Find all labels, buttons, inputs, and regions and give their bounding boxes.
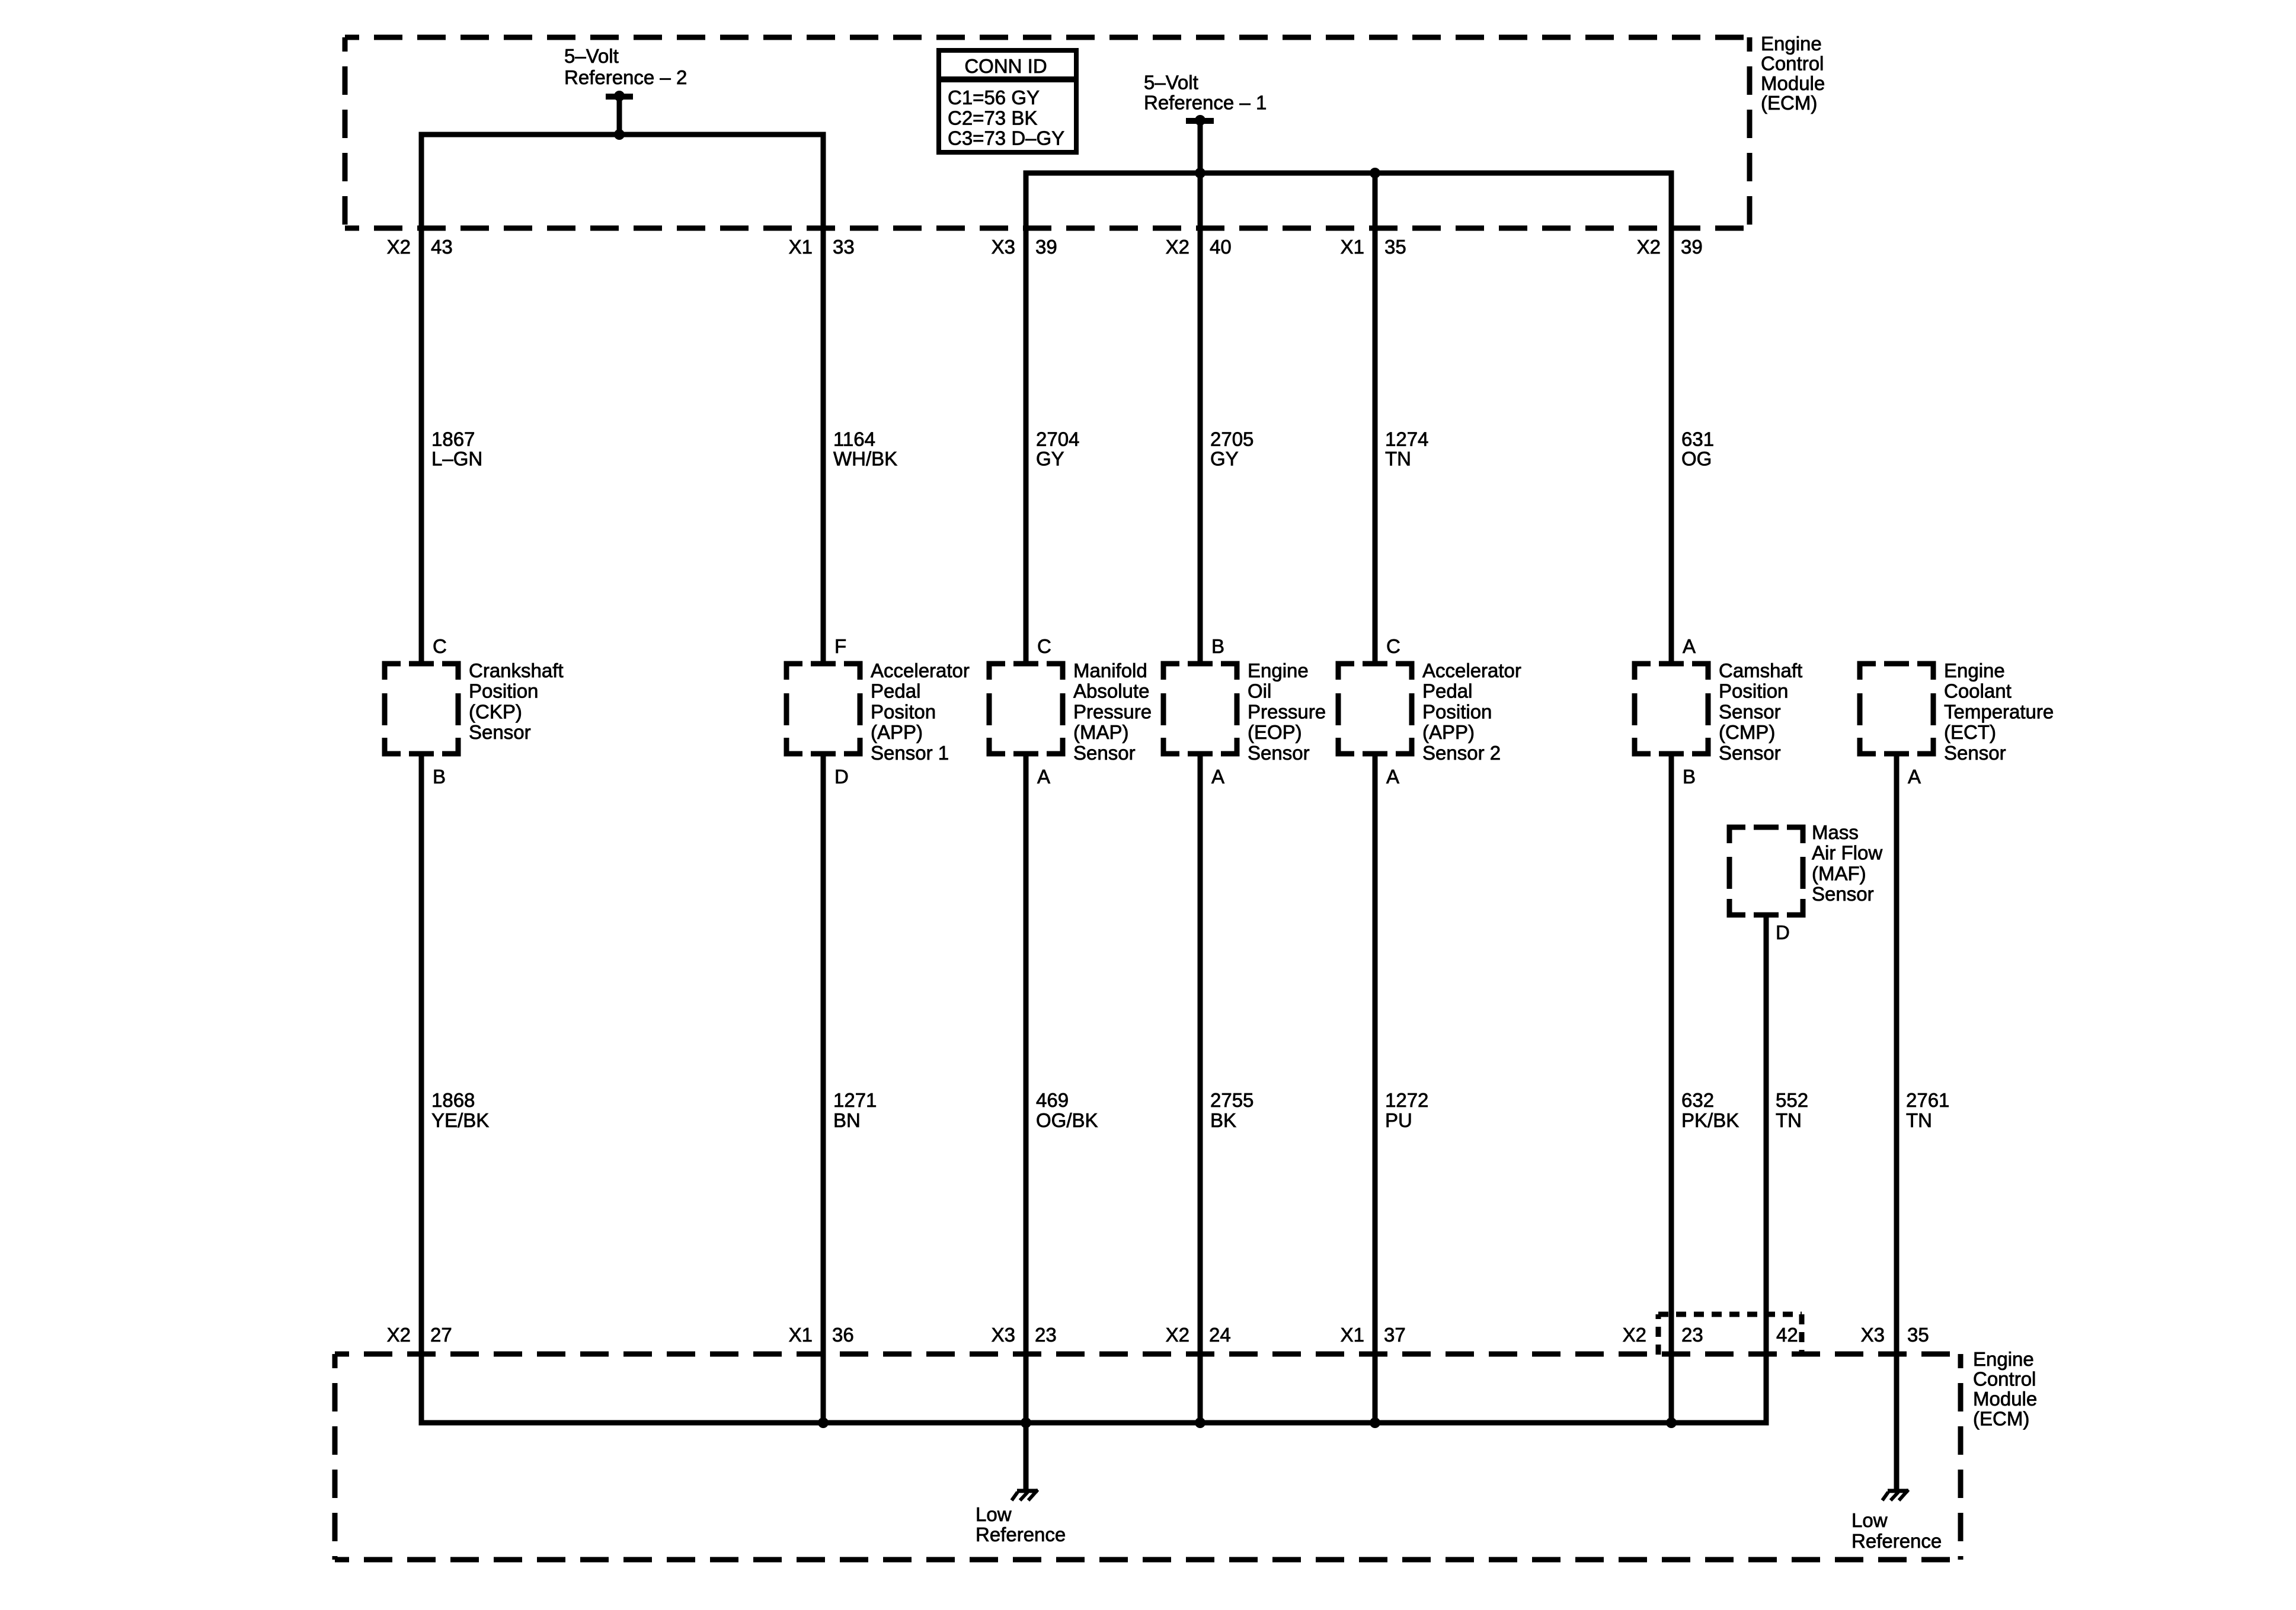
- svg-text:BK: BK: [1210, 1109, 1236, 1131]
- svg-text:Sensor: Sensor: [1073, 742, 1136, 764]
- svg-text:Air Flow: Air Flow: [1812, 842, 1882, 864]
- svg-text:Control: Control: [1761, 52, 1824, 74]
- label: circuit 1867 L-GN: [431, 428, 482, 470]
- svg-text:D: D: [1776, 921, 1790, 943]
- svg-text:Low: Low: [976, 1503, 1012, 1525]
- svg-text:39: 39: [1035, 236, 1057, 258]
- svg-text:(CMP): (CMP): [1719, 721, 1775, 743]
- svg-text:OG/BK: OG/BK: [1036, 1109, 1098, 1131]
- svg-text:Low: Low: [1851, 1509, 1888, 1531]
- label: circuit 631 OG: [1681, 428, 1714, 470]
- wire 1868 YE/BK (CKP low): [419, 754, 424, 1426]
- svg-text:Module: Module: [1761, 72, 1825, 94]
- wire 552 TN (MAF low): [1764, 915, 1769, 1426]
- svg-text:1867: 1867: [431, 428, 475, 450]
- svg-text:2705: 2705: [1210, 428, 1253, 450]
- svg-text:Oil: Oil: [1248, 680, 1271, 702]
- svg-text:5–Volt: 5–Volt: [1144, 72, 1198, 94]
- svg-text:X3: X3: [992, 236, 1015, 258]
- pin X1 35 (top ECM row): [1341, 236, 1406, 258]
- svg-text:Sensor: Sensor: [1719, 742, 1781, 764]
- svg-text:X2: X2: [1623, 1324, 1646, 1346]
- svg-text:X3: X3: [1861, 1324, 1885, 1346]
- pin X2 23 (bottom ECM row, CMP): [1623, 1324, 1703, 1346]
- svg-text:Engine: Engine: [1761, 33, 1822, 55]
- wire: 5V ref 1 bus: [1026, 171, 1671, 176]
- svg-text:(ECM): (ECM): [1761, 92, 1817, 114]
- svg-text:469: 469: [1036, 1089, 1069, 1111]
- svg-text:1272: 1272: [1385, 1089, 1428, 1111]
- svg-text:631: 631: [1681, 428, 1714, 450]
- svg-text:1274: 1274: [1385, 428, 1428, 450]
- junction: APP2 tap on 5V ref 1 bus: [1370, 168, 1380, 178]
- label: Engine Control Module (ECM) bottom: [1973, 1348, 2037, 1430]
- label: circuit 1164 WH/BK: [833, 428, 897, 470]
- engine coolant temperature (ECT) sensor: [1857, 660, 2054, 788]
- manifold absolute pressure (MAP) sensor: [987, 635, 1152, 788]
- svg-text:43: 43: [431, 236, 453, 258]
- svg-text:X1: X1: [789, 1324, 813, 1346]
- svg-text:GY: GY: [1210, 448, 1239, 470]
- svg-text:CONN ID: CONN ID: [964, 55, 1047, 77]
- CONN ID table: [939, 50, 1076, 152]
- svg-text:Reference – 1: Reference – 1: [1144, 92, 1267, 114]
- svg-text:Reference – 2: Reference – 2: [564, 66, 687, 88]
- svg-text:OG: OG: [1681, 448, 1712, 470]
- wire 469 OG/BK (MAP low): [1024, 754, 1029, 1489]
- crankshaft position (CKP) sensor: [382, 635, 564, 788]
- svg-text:(EOP): (EOP): [1248, 721, 1302, 743]
- svg-text:1271: 1271: [833, 1089, 877, 1111]
- svg-text:Reference: Reference: [1851, 1530, 1942, 1552]
- label: circuit 1274 TN: [1385, 428, 1428, 470]
- svg-text:Engine: Engine: [1248, 660, 1309, 681]
- wire 1164 WH/BK (APP1 5V): [821, 132, 826, 664]
- svg-text:(ECM): (ECM): [1973, 1408, 2029, 1430]
- svg-text:Pressure: Pressure: [1073, 700, 1152, 722]
- svg-text:X1: X1: [1341, 236, 1364, 258]
- svg-text:632: 632: [1681, 1089, 1714, 1111]
- junction: APP1 low: [818, 1417, 829, 1428]
- accelerator pedal position (APP) sensor 1: [784, 635, 970, 788]
- svg-text:B: B: [433, 766, 446, 788]
- svg-text:TN: TN: [1385, 448, 1411, 470]
- svg-text:2704: 2704: [1036, 428, 1079, 450]
- svg-text:(ECT): (ECT): [1944, 721, 1996, 743]
- svg-text:35: 35: [1384, 236, 1406, 258]
- wire 1271 BN (APP1 low): [821, 754, 826, 1423]
- svg-text:Sensor: Sensor: [1812, 883, 1874, 905]
- pin X3 39 (top ECM row): [992, 236, 1057, 258]
- pin X3 35 (bottom ECM row, ECT): [1861, 1324, 1929, 1346]
- svg-text:BN: BN: [833, 1109, 861, 1131]
- ground: low reference (MAP): [1012, 1490, 1038, 1500]
- svg-text:C1=56 GY: C1=56 GY: [948, 87, 1040, 108]
- label: circuit 2755 BK: [1210, 1089, 1253, 1131]
- camshaft position (CMP) sensor: [1632, 635, 1803, 788]
- svg-text:Sensor 1: Sensor 1: [871, 742, 949, 764]
- svg-text:C: C: [1386, 635, 1400, 657]
- svg-text:24: 24: [1209, 1324, 1231, 1346]
- label: circuit 2705 GY: [1210, 428, 1253, 470]
- svg-text:(MAP): (MAP): [1073, 721, 1129, 743]
- svg-text:A: A: [1908, 766, 1921, 788]
- svg-text:C: C: [1037, 635, 1051, 657]
- svg-text:X2: X2: [1637, 236, 1661, 258]
- label: circuit 552 TN: [1776, 1089, 1808, 1131]
- label: circuit 469 OG/BK: [1036, 1089, 1098, 1131]
- svg-text:Control: Control: [1973, 1368, 2036, 1390]
- svg-text:Position: Position: [1422, 700, 1492, 722]
- pin X2 43 (top ECM row): [387, 236, 453, 258]
- svg-text:GY: GY: [1036, 448, 1064, 470]
- svg-text:WH/BK: WH/BK: [833, 448, 897, 470]
- svg-text:36: 36: [832, 1324, 854, 1346]
- svg-text:X1: X1: [789, 236, 813, 258]
- power symbol: 5-Volt Reference - 1: [1144, 72, 1267, 179]
- svg-text:Camshaft: Camshaft: [1719, 660, 1802, 681]
- svg-text:Position: Position: [469, 680, 538, 702]
- svg-text:Module: Module: [1973, 1388, 2037, 1410]
- svg-text:Pedal: Pedal: [1422, 680, 1472, 702]
- wire 1274 TN (APP2 5V): [1373, 173, 1378, 664]
- Engine Control Module (ECM) bottom box: [335, 1354, 1961, 1560]
- svg-text:TN: TN: [1906, 1109, 1932, 1131]
- pin X1 33 (top ECM row): [789, 236, 855, 258]
- svg-text:40: 40: [1210, 236, 1232, 258]
- label: circuit 2704 GY: [1036, 428, 1079, 470]
- svg-text:(APP): (APP): [1422, 721, 1475, 743]
- svg-text:Pressure: Pressure: [1248, 700, 1326, 722]
- wire: low reference bus: [421, 1420, 1766, 1426]
- svg-text:Coolant: Coolant: [1944, 680, 2012, 702]
- power symbol: 5-Volt Reference - 2: [564, 45, 687, 140]
- svg-text:23: 23: [1035, 1324, 1057, 1346]
- junction: CMP low: [1666, 1417, 1677, 1428]
- svg-text:X2: X2: [387, 236, 411, 258]
- svg-text:Sensor: Sensor: [1719, 700, 1781, 722]
- label: circuit 1272 PU: [1385, 1089, 1428, 1131]
- svg-text:(MAF): (MAF): [1812, 862, 1866, 884]
- svg-text:D: D: [834, 766, 849, 788]
- svg-text:35: 35: [1907, 1324, 1929, 1346]
- svg-text:PU: PU: [1385, 1109, 1412, 1131]
- svg-text:X2: X2: [1166, 236, 1189, 258]
- svg-text:Pedal: Pedal: [871, 680, 920, 702]
- accelerator pedal position (APP) sensor 2: [1336, 635, 1521, 788]
- pin X1 37 (bottom ECM row): [1341, 1324, 1406, 1346]
- svg-text:1868: 1868: [431, 1089, 475, 1111]
- svg-text:Sensor: Sensor: [1944, 742, 2006, 764]
- label: Low Reference left: [976, 1503, 1066, 1545]
- label: circuit 1868 YE/BK: [431, 1089, 489, 1131]
- svg-text:X2: X2: [387, 1324, 411, 1346]
- svg-text:X2: X2: [1166, 1324, 1189, 1346]
- wire 1867 L-GN (CKP 5V): [419, 132, 424, 664]
- svg-text:TN: TN: [1776, 1109, 1802, 1131]
- svg-text:33: 33: [833, 236, 855, 258]
- svg-text:Positon: Positon: [871, 700, 936, 722]
- svg-text:Reference: Reference: [976, 1523, 1066, 1545]
- engine oil pressure (EOP) sensor: [1161, 635, 1326, 788]
- svg-text:C3=73 D–GY: C3=73 D–GY: [948, 127, 1064, 149]
- svg-text:Temperature: Temperature: [1944, 700, 2054, 722]
- label: circuit 1271 BN: [833, 1089, 877, 1131]
- pin X2 39 (top ECM row): [1637, 236, 1703, 258]
- junction: EOP low: [1195, 1417, 1205, 1428]
- svg-text:2755: 2755: [1210, 1089, 1253, 1111]
- label: Low Reference right: [1851, 1509, 1942, 1552]
- svg-text:Engine: Engine: [1973, 1348, 2034, 1370]
- label: Engine Control Module (ECM) top: [1761, 33, 1825, 114]
- Engine Control Module (ECM) top box: [345, 37, 1750, 228]
- wire 2755 BK (EOP low): [1198, 754, 1203, 1423]
- svg-text:39: 39: [1681, 236, 1703, 258]
- pin X2 40 (top ECM row): [1166, 236, 1232, 258]
- svg-text:Position: Position: [1719, 680, 1788, 702]
- svg-text:(APP): (APP): [871, 721, 923, 743]
- svg-text:(CKP): (CKP): [469, 700, 522, 722]
- junction: APP2 low: [1370, 1417, 1380, 1428]
- svg-text:Manifold: Manifold: [1073, 660, 1147, 681]
- svg-text:Sensor: Sensor: [469, 721, 531, 743]
- mass air flow (MAF) sensor: [1727, 821, 1883, 943]
- svg-text:37: 37: [1384, 1324, 1406, 1346]
- label: circuit 2761 TN: [1906, 1089, 1949, 1131]
- pin X2 24 (bottom ECM row): [1166, 1324, 1231, 1346]
- svg-text:5–Volt: 5–Volt: [564, 45, 619, 67]
- wire 2761 TN (ECT low): [1894, 754, 1900, 1489]
- wire 2704 GY (MAP 5V): [1024, 171, 1029, 664]
- wire 1272 PU (APP2 low): [1373, 754, 1378, 1423]
- svg-text:A: A: [1211, 766, 1224, 788]
- svg-text:Accelerator: Accelerator: [1422, 660, 1521, 681]
- wire 632 PK/BK (CMP low): [1669, 754, 1674, 1423]
- ground: low reference (ECT): [1882, 1490, 1908, 1500]
- label: circuit 632 PK/BK: [1681, 1089, 1739, 1131]
- svg-text:X3: X3: [992, 1324, 1015, 1346]
- svg-text:C2=73 BK: C2=73 BK: [948, 107, 1037, 129]
- svg-text:552: 552: [1776, 1089, 1808, 1111]
- svg-text:Crankshaft: Crankshaft: [469, 660, 564, 681]
- pin X1 36 (bottom ECM row): [789, 1324, 854, 1346]
- svg-text:PK/BK: PK/BK: [1681, 1109, 1739, 1131]
- wire 2705 GY (EOP 5V): [1198, 173, 1203, 664]
- svg-text:42: 42: [1776, 1324, 1798, 1346]
- pin X3 23 (bottom ECM row): [992, 1324, 1057, 1346]
- svg-text:Mass: Mass: [1812, 821, 1859, 843]
- svg-text:YE/BK: YE/BK: [431, 1109, 489, 1131]
- svg-text:B: B: [1683, 766, 1696, 788]
- svg-text:23: 23: [1681, 1324, 1703, 1346]
- svg-text:A: A: [1683, 635, 1696, 657]
- dotted connector box around pins 23 and 42: [1658, 1314, 1802, 1355]
- svg-text:Accelerator: Accelerator: [871, 660, 970, 681]
- svg-text:L–GN: L–GN: [431, 448, 482, 470]
- svg-text:A: A: [1386, 766, 1399, 788]
- svg-text:Engine: Engine: [1944, 660, 2005, 681]
- wire 631 OG (CMP 5V): [1669, 171, 1674, 664]
- svg-text:Absolute: Absolute: [1073, 680, 1149, 702]
- svg-text:2761: 2761: [1906, 1089, 1949, 1111]
- svg-text:C: C: [433, 635, 447, 657]
- wire: 5V ref 2 bus: [421, 132, 823, 137]
- pin X2 27 (bottom ECM row): [387, 1324, 452, 1346]
- svg-text:27: 27: [430, 1324, 452, 1346]
- svg-text:X1: X1: [1341, 1324, 1364, 1346]
- svg-text:A: A: [1037, 766, 1050, 788]
- svg-text:Sensor: Sensor: [1248, 742, 1310, 764]
- svg-text:1164: 1164: [833, 428, 875, 450]
- svg-text:Sensor 2: Sensor 2: [1422, 742, 1501, 764]
- svg-text:F: F: [834, 635, 846, 657]
- junction: MAP low: [1021, 1417, 1031, 1428]
- svg-text:B: B: [1211, 635, 1224, 657]
